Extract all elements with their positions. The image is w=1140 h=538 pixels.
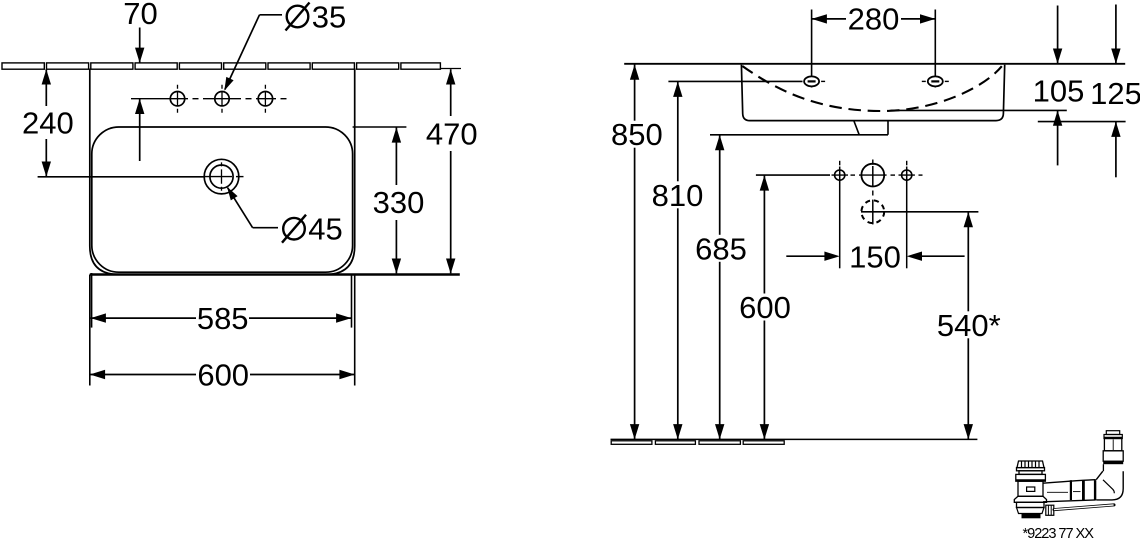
- icon caption: [1023, 526, 1095, 538]
- svg-text:45: 45: [308, 212, 342, 247]
- svg-text:470: 470: [426, 116, 478, 151]
- dimension 585: [91, 301, 352, 336]
- bowl interior dashed curve: [742, 66, 1002, 111]
- level line 125: [1038, 121, 1126, 123]
- dimension 540* (drain height): [933, 212, 1006, 439]
- dimension 150: [786, 239, 964, 274]
- top reference line (rim level): [624, 63, 1125, 65]
- dimension 240: [22, 69, 205, 177]
- extension line right outer: [354, 275, 356, 386]
- washbasin outer contour (top view): [90, 69, 355, 275]
- svg-text:685: 685: [695, 231, 747, 266]
- extension line left outer: [89, 275, 91, 386]
- floor hatching segments: [611, 441, 784, 445]
- tap hole 2 (top view): [215, 85, 229, 113]
- tap hole 3 (top view): [258, 85, 272, 113]
- dimension 470: [426, 69, 478, 274]
- label Ø35 (leader): [224, 0, 346, 91]
- level line 540: [861, 211, 978, 213]
- floor line: [611, 438, 978, 440]
- level line 600: [756, 174, 830, 176]
- dimension 600 width: [90, 358, 355, 393]
- svg-text:125: 125: [1090, 76, 1140, 111]
- svg-text:600: 600: [197, 358, 249, 393]
- svg-text:105: 105: [1033, 73, 1085, 108]
- level line 685: [710, 134, 888, 136]
- drain fitting icon 9223 77 XX: [1014, 431, 1123, 519]
- wall extension line right: [440, 68, 461, 70]
- label Ø45 (leader): [227, 187, 343, 247]
- level line 105: [891, 109, 1067, 111]
- fixing hole 2 (oval): [922, 10, 949, 88]
- svg-text:540*: 540*: [937, 308, 1001, 343]
- extension line bowl top edge: [353, 126, 407, 128]
- dimension 70: [123, 0, 157, 161]
- svg-text:280: 280: [848, 2, 900, 37]
- faucet hole center circle: [859, 160, 887, 196]
- washbasin outline (front view): [741, 65, 1004, 121]
- svg-text:850: 850: [611, 117, 663, 152]
- drain hole (top view): [204, 159, 243, 194]
- drain outlet dashed circle: [861, 200, 884, 225]
- wall line (top view): [2, 63, 440, 69]
- level line 810: [668, 80, 802, 82]
- tap hole centerline: [131, 98, 287, 100]
- tap hole 1 (top view): [170, 85, 184, 113]
- dimension 105: [1033, 6, 1085, 166]
- svg-text:330: 330: [373, 185, 425, 220]
- fixing hole 1 (oval): [804, 10, 825, 88]
- dimension 685: [692, 135, 751, 439]
- dimension 600 (faucet height): [736, 175, 795, 439]
- svg-text:600: 600: [739, 290, 791, 325]
- svg-text:*9223 77 XX: *9223 77 XX: [1023, 526, 1095, 538]
- drain boss (front view): [854, 121, 888, 135]
- dimension 850 (height): [608, 65, 667, 440]
- dimension 330: [373, 127, 425, 274]
- washbasin inner bowl (top view): [92, 127, 353, 272]
- extension line right inner: [351, 275, 353, 328]
- svg-text:810: 810: [652, 178, 704, 213]
- bottom reference line: [90, 273, 460, 276]
- dimension 125: [1090, 5, 1140, 178]
- dimension 280: [812, 2, 936, 37]
- svg-text:585: 585: [197, 301, 249, 336]
- svg-text:240: 240: [22, 106, 74, 141]
- faucet hole left crosshair: [832, 161, 849, 268]
- crosshair row dashes: [851, 174, 896, 176]
- svg-text:70: 70: [123, 0, 157, 31]
- dimension 810 (overflow height): [648, 82, 707, 440]
- svg-text:35: 35: [312, 0, 346, 35]
- svg-text:150: 150: [849, 239, 901, 274]
- extension line left inner: [91, 273, 93, 328]
- faucet hole right crosshair: [899, 161, 923, 268]
